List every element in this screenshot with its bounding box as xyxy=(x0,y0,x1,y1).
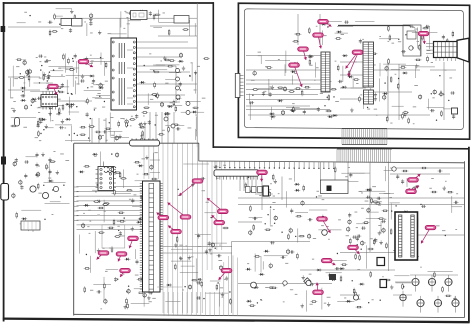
wire xyxy=(309,209,327,211)
resistor xyxy=(390,76,392,83)
value label xyxy=(176,78,180,81)
resistor xyxy=(308,27,310,34)
wire xyxy=(109,113,111,137)
capacitor xyxy=(366,196,371,198)
wire xyxy=(341,172,364,174)
transistor xyxy=(433,90,436,93)
junction xyxy=(395,205,396,206)
wire xyxy=(50,70,63,72)
wire xyxy=(305,290,307,311)
value label xyxy=(90,289,93,292)
wire xyxy=(69,111,80,113)
main lower schematic frame (top edge left part) xyxy=(74,142,199,144)
value label xyxy=(272,201,275,204)
wire xyxy=(246,99,330,101)
junction xyxy=(67,93,68,94)
ground xyxy=(195,70,197,72)
resistor xyxy=(372,201,379,203)
value label xyxy=(111,116,114,119)
pin stubs on lower frame left edge xyxy=(74,186,79,188)
wire xyxy=(285,51,287,73)
value label xyxy=(265,286,268,289)
wire xyxy=(8,26,61,28)
wire xyxy=(88,124,90,142)
resistor xyxy=(103,283,105,290)
value label xyxy=(313,237,316,240)
ground xyxy=(454,296,456,298)
wire xyxy=(135,180,154,182)
junction xyxy=(368,302,369,303)
IC U403 (horizontal IC, lower page) xyxy=(214,170,259,176)
resistor xyxy=(102,204,109,206)
wire xyxy=(50,201,61,203)
resistor xyxy=(249,305,256,307)
wire xyxy=(251,177,253,192)
resistor xyxy=(445,295,452,297)
resistor xyxy=(408,117,410,124)
diode xyxy=(264,250,270,252)
wire xyxy=(246,89,330,91)
capacitor xyxy=(148,120,150,125)
junction xyxy=(128,286,129,287)
transistor xyxy=(24,106,27,109)
value label xyxy=(170,101,173,104)
connector CN203 (block under U202) xyxy=(364,90,374,104)
capacitor xyxy=(153,273,158,275)
wire xyxy=(108,131,122,133)
capacitor xyxy=(335,268,340,270)
wire xyxy=(429,26,431,49)
capacitor xyxy=(308,219,313,221)
capacitor xyxy=(356,235,361,237)
transistor xyxy=(104,300,107,303)
diode xyxy=(65,118,71,120)
capacitor xyxy=(425,26,430,28)
wire xyxy=(20,223,34,225)
value label xyxy=(309,64,312,67)
wire xyxy=(68,97,70,116)
resistor xyxy=(415,59,422,61)
wire xyxy=(322,30,324,45)
resistor xyxy=(389,34,391,41)
wire xyxy=(94,231,96,253)
diode xyxy=(316,269,322,271)
wire (bus) xyxy=(172,144,174,314)
resistor xyxy=(142,130,144,137)
value label xyxy=(356,82,358,85)
diode xyxy=(403,211,409,213)
capacitor xyxy=(402,179,404,184)
callout label INT15 xyxy=(207,198,223,211)
ground xyxy=(119,134,121,136)
resistor xyxy=(139,126,146,128)
wire xyxy=(417,218,419,228)
resistor xyxy=(113,219,115,226)
capacitor xyxy=(217,255,222,257)
wire (bus) xyxy=(162,144,164,314)
wire xyxy=(183,163,209,165)
IC U201 (inset page vertical IC 1) xyxy=(321,52,330,92)
resistor xyxy=(158,133,165,135)
resistor xyxy=(358,96,360,103)
junction xyxy=(184,286,185,287)
wire xyxy=(258,188,271,190)
ground xyxy=(378,231,380,233)
resistor xyxy=(292,40,299,42)
transistor xyxy=(108,178,111,181)
ground xyxy=(48,73,50,75)
resistor xyxy=(176,236,178,243)
value label xyxy=(111,134,114,137)
value label xyxy=(169,283,171,286)
value label xyxy=(431,177,434,180)
ground xyxy=(56,170,58,172)
junction xyxy=(324,105,325,106)
resistor xyxy=(191,279,198,281)
wire xyxy=(281,177,283,201)
value label xyxy=(150,98,153,101)
resistor xyxy=(402,283,404,290)
value label xyxy=(357,298,361,301)
capacitor xyxy=(453,114,455,119)
transistor xyxy=(269,264,272,267)
value label xyxy=(361,207,364,210)
junction xyxy=(436,120,437,121)
resistor xyxy=(304,86,311,88)
resistor xyxy=(298,235,305,237)
ground xyxy=(271,85,273,87)
resistor xyxy=(431,191,438,193)
capacitor xyxy=(430,110,435,112)
capacitor xyxy=(263,91,265,96)
ground xyxy=(164,56,166,58)
wire xyxy=(380,221,382,233)
diode xyxy=(332,115,338,117)
resistor xyxy=(353,288,355,295)
capacitor xyxy=(37,123,39,128)
wire xyxy=(153,64,165,66)
wire xyxy=(113,131,115,142)
value label xyxy=(83,212,85,215)
wire xyxy=(150,172,160,174)
transistor Q402 (dark box) xyxy=(380,280,387,288)
wire xyxy=(208,242,227,244)
ground xyxy=(183,66,185,68)
value label xyxy=(188,127,192,130)
diode xyxy=(247,190,253,192)
value label xyxy=(270,182,272,185)
resistor xyxy=(153,14,155,21)
value label xyxy=(145,260,147,263)
capacitor C410 xyxy=(438,170,443,172)
value label xyxy=(13,100,16,103)
junction xyxy=(118,230,119,231)
wire xyxy=(391,69,400,71)
wire xyxy=(71,126,73,142)
value label xyxy=(186,245,188,248)
resistor xyxy=(387,25,389,32)
value label xyxy=(38,165,40,168)
value label xyxy=(384,218,386,221)
value label xyxy=(258,54,261,57)
resistor xyxy=(330,88,337,90)
wire xyxy=(249,217,263,219)
diode xyxy=(65,103,71,105)
junction xyxy=(448,100,449,101)
capacitor xyxy=(57,113,62,115)
connector P103 xyxy=(21,221,40,230)
value label xyxy=(100,307,102,310)
resistor xyxy=(105,128,112,130)
value label xyxy=(312,258,314,261)
junction xyxy=(248,177,249,178)
transistor xyxy=(143,294,146,297)
resistor xyxy=(37,183,39,190)
capacitor xyxy=(205,249,207,254)
wire xyxy=(387,76,389,91)
resistor xyxy=(268,287,275,289)
capacitor xyxy=(24,161,29,163)
ground xyxy=(443,186,445,188)
wire xyxy=(131,303,150,305)
page border (outer frame left edge) xyxy=(3,2,5,322)
wire xyxy=(119,18,121,38)
connector P101 xyxy=(131,11,148,20)
resistor xyxy=(397,83,399,90)
resistor xyxy=(164,113,171,115)
capacitor xyxy=(397,174,399,179)
callout label INT24 xyxy=(294,65,302,87)
resistor xyxy=(154,14,161,16)
potentiometer VR404 xyxy=(400,294,406,300)
wire xyxy=(370,88,372,103)
resistor xyxy=(388,58,390,65)
resistor xyxy=(118,212,125,214)
value label xyxy=(449,77,452,80)
transistor xyxy=(49,105,52,108)
transistor xyxy=(347,228,350,231)
ground xyxy=(71,9,73,11)
divider under inset page (horizontal) xyxy=(213,147,470,149)
callout label INT17 xyxy=(411,186,419,192)
wire xyxy=(160,246,232,248)
transistor Q103 xyxy=(53,186,58,191)
junction xyxy=(53,99,54,100)
ground xyxy=(416,64,418,66)
transistor xyxy=(115,136,118,139)
resistor xyxy=(182,29,189,31)
resistor xyxy=(143,107,150,109)
wire xyxy=(120,11,122,27)
value label xyxy=(191,61,193,64)
connector CN401 (bar on lower frame top edge) xyxy=(130,140,160,146)
wire xyxy=(29,75,31,87)
callout label INT21 xyxy=(323,22,332,27)
capacitor xyxy=(38,55,43,57)
value label xyxy=(327,296,331,299)
junction xyxy=(384,82,385,83)
value label xyxy=(259,194,261,197)
value label xyxy=(160,60,162,63)
value label xyxy=(57,98,61,101)
junction xyxy=(217,282,218,283)
wire xyxy=(143,294,145,307)
value label xyxy=(316,66,319,69)
wire xyxy=(300,269,395,271)
callout label INT13 xyxy=(179,181,198,196)
value label xyxy=(26,74,28,77)
value label xyxy=(310,303,313,306)
value label xyxy=(65,68,68,71)
diode xyxy=(346,300,352,302)
junction xyxy=(49,72,50,73)
wire xyxy=(21,209,41,211)
resistor xyxy=(288,91,295,93)
ground xyxy=(146,155,148,157)
wire xyxy=(238,221,262,223)
resistor xyxy=(141,112,148,114)
value label xyxy=(108,32,112,35)
resistor xyxy=(252,89,259,91)
wire xyxy=(136,94,185,96)
wire xyxy=(50,99,52,121)
value label xyxy=(370,237,373,240)
capacitor xyxy=(290,251,295,253)
resistor xyxy=(222,227,229,229)
wire xyxy=(195,117,197,137)
value label xyxy=(295,33,298,36)
resistor xyxy=(277,87,284,89)
junction xyxy=(179,257,180,258)
capacitor xyxy=(176,128,181,130)
connector J1 (tuner input on left border) xyxy=(1,184,9,201)
wire xyxy=(171,248,193,250)
wire xyxy=(286,106,300,108)
wire xyxy=(167,104,182,106)
value label xyxy=(324,302,327,305)
wire xyxy=(394,275,409,277)
wire xyxy=(315,62,317,77)
wire (bus) xyxy=(187,144,189,314)
ground xyxy=(131,227,133,229)
value label xyxy=(273,208,275,211)
diode xyxy=(175,98,181,100)
value label xyxy=(77,83,80,86)
value label xyxy=(38,192,41,195)
wire xyxy=(150,159,160,161)
capacitor xyxy=(74,54,76,59)
value label xyxy=(278,58,280,61)
value label xyxy=(61,74,63,77)
diode xyxy=(402,72,408,74)
junction xyxy=(43,129,44,130)
capacitor xyxy=(128,12,133,14)
resistor xyxy=(151,93,158,95)
diode xyxy=(136,221,142,223)
value label xyxy=(221,296,223,299)
diode xyxy=(41,119,47,121)
transistor xyxy=(115,153,118,156)
wire xyxy=(379,193,390,195)
junction xyxy=(316,196,317,197)
resistor xyxy=(440,90,442,97)
junction xyxy=(29,15,30,16)
value label xyxy=(104,210,106,213)
resistor xyxy=(295,88,302,90)
wire xyxy=(360,190,386,192)
junction xyxy=(152,269,153,270)
callout label INT7B xyxy=(118,254,122,262)
resistor xyxy=(27,69,29,76)
transistor xyxy=(125,120,128,123)
wire xyxy=(84,90,101,92)
value label xyxy=(191,255,194,258)
value label xyxy=(53,150,55,153)
value label xyxy=(85,63,87,66)
value label xyxy=(445,69,447,72)
resistor xyxy=(138,218,145,220)
value label xyxy=(416,255,419,258)
capacitor xyxy=(290,109,295,111)
value label xyxy=(65,127,67,130)
resistor xyxy=(354,291,356,298)
resistor xyxy=(108,227,115,229)
value label xyxy=(261,299,263,302)
value label xyxy=(152,297,156,300)
wire xyxy=(161,112,163,143)
transistor xyxy=(283,87,286,90)
capacitor xyxy=(59,127,64,129)
wire xyxy=(260,256,262,273)
junction xyxy=(60,196,61,197)
junction xyxy=(367,107,368,108)
transistor xyxy=(150,166,153,169)
ground xyxy=(61,119,63,121)
wire xyxy=(45,203,70,205)
resistor xyxy=(427,56,429,63)
resistor xyxy=(245,182,247,189)
value label xyxy=(328,238,330,241)
wire xyxy=(340,98,363,100)
junction xyxy=(51,100,52,101)
resistor xyxy=(43,74,45,81)
wire xyxy=(66,75,91,77)
wire xyxy=(8,89,40,91)
wire xyxy=(379,38,399,40)
value label xyxy=(23,126,27,129)
callout label INT23 xyxy=(303,49,306,60)
transistor xyxy=(150,227,153,230)
capacitor xyxy=(442,35,444,40)
wire xyxy=(293,168,295,182)
value label xyxy=(38,21,41,24)
ground xyxy=(328,302,330,304)
value label xyxy=(105,80,108,83)
value label xyxy=(289,63,292,66)
capacitor xyxy=(454,201,459,203)
value label xyxy=(52,119,54,122)
capacitor xyxy=(132,198,134,203)
resistor xyxy=(325,110,332,112)
main lower schematic frame (left edge) xyxy=(73,143,75,315)
capacitor xyxy=(164,113,169,115)
ground xyxy=(391,285,393,287)
capacitor xyxy=(149,11,151,16)
callout label INT4 xyxy=(157,213,164,218)
value label xyxy=(392,42,395,45)
resistor xyxy=(363,222,370,224)
wire (bus) xyxy=(191,144,193,314)
